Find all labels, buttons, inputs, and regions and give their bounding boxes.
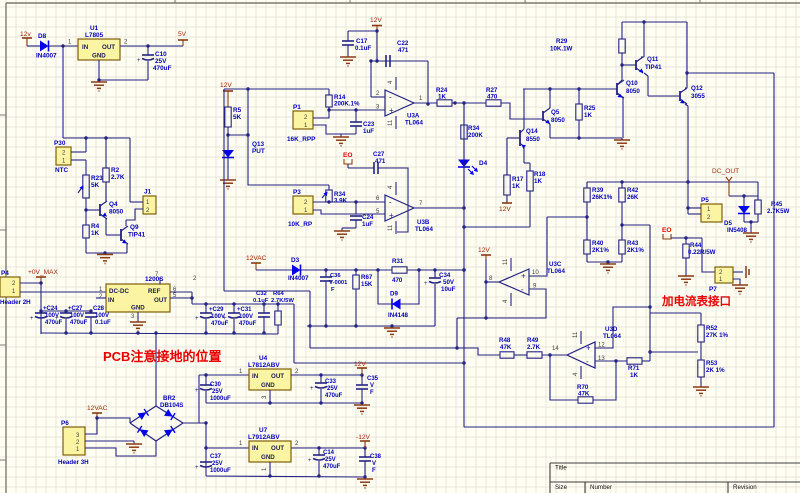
sheet border [6,2,800,4]
svg-text:+C31: +C31 [237,307,252,313]
svg-text:100V: 100V [239,314,253,320]
svg-text:C23: C23 [363,121,375,128]
resistor R27 470 [486,100,501,106]
wire R5 tap to divider [228,134,248,136]
svg-text:Revision: Revision [733,484,757,491]
svg-text:R52: R52 [706,325,718,332]
capacitor C17 0.1uF [347,31,349,41]
capacitor C23 1uF [355,110,357,122]
wire main output column [463,103,465,427]
svg-text:R23: R23 [91,175,103,182]
svg-text:P5: P5 [701,197,709,204]
wire vertical tap to RP row [248,89,329,185]
resistor R39 26K 1% [586,182,588,188]
capacitor C34 10uF [434,270,436,278]
resistor R45 2.7K 5W [757,196,759,200]
svg-text:R45: R45 [771,201,783,208]
svg-text:470uF: 470uF [323,464,341,470]
svg-text:L7805: L7805 [85,32,104,39]
svg-text:Header 3H: Header 3H [58,459,89,466]
ground reference rail [391,326,393,328]
svg-text:1uF: 1uF [363,128,374,135]
svg-text:470: 470 [392,277,403,284]
pin 7 stub [159,277,161,284]
svg-text:471: 471 [375,158,386,165]
svg-text:加电流表接口: 加电流表接口 [661,294,731,308]
svg-text:3055: 3055 [691,93,705,100]
svg-text:R17: R17 [512,176,524,183]
svg-text:+: + [195,316,199,322]
svg-text:C38: C38 [370,454,382,460]
wire P4 pin1 to DC-DC in [20,291,106,293]
wire R49 to U3D pin14 [542,354,567,356]
wire pin12 to sense [595,307,650,348]
svg-text:14: 14 [552,346,559,352]
svg-text:OUT: OUT [271,445,284,452]
svg-text:C32: C32 [256,291,268,297]
wire input cap rail [41,310,91,312]
svg-text:-: - [521,285,524,294]
chassis bracket [745,266,747,278]
wire 12v to D8 [27,45,40,47]
resistor R17 1K [506,138,508,175]
svg-text:R49: R49 [527,337,539,344]
svg-text:2K1%: 2K1% [592,247,609,254]
svg-text:D9: D9 [390,291,398,298]
wire C17 top [348,30,377,32]
svg-text:V-0001: V-0001 [329,280,348,286]
wire pin10 to divider tap [529,217,547,276]
wire U3B output [414,207,464,209]
wire Q11 emitter to Q12 base [648,95,680,97]
wire aux branch [293,304,295,363]
pin3 stub U4 [269,390,271,403]
svg-text:TL064: TL064 [405,120,423,127]
connector P1 [293,111,313,129]
svg-text:P30: P30 [54,140,66,147]
svg-text:Q9: Q9 [130,224,139,231]
svg-text:-: - [389,198,392,207]
svg-text:10K.1W: 10K.1W [550,46,573,53]
svg-text:12V: 12V [499,206,511,213]
svg-text:R43: R43 [627,240,639,247]
dc-dc converter 1200S [106,284,170,312]
wire P4 pin2 to port [20,282,41,284]
svg-text:+: + [195,465,199,471]
svg-text:47K: 47K [578,391,590,398]
svg-text:U3D: U3D [605,326,618,333]
svg-text:26K: 26K [627,194,639,201]
svg-text:DB104S: DB104S [160,402,183,409]
svg-text:Q14: Q14 [526,128,538,135]
svg-text:+: + [389,106,394,115]
svg-text:3.9K: 3.9K [334,198,348,205]
svg-text:R25: R25 [584,105,596,112]
wire pin2 up to feedback [370,61,372,97]
svg-text:10K_RP: 10K_RP [288,221,313,228]
svg-text:16K_RPP: 16K_RPP [287,136,316,143]
svg-text:C27: C27 [373,151,385,158]
svg-text:1000uF: 1000uF [210,396,231,402]
svg-text:5K: 5K [233,114,242,121]
svg-text:2.7K: 2.7K [111,174,125,181]
svg-text:OUT: OUT [271,373,284,380]
wire EO to R44 [671,237,702,239]
wire output rail [192,303,294,305]
svg-text:C17: C17 [356,38,368,45]
wire P7 pin2 bracket [733,271,743,273]
svg-text:470uF: 470uF [70,320,88,326]
svg-text:Number: Number [590,484,612,491]
wire R18 to output node [464,226,530,228]
svg-text:OUT: OUT [102,44,115,51]
wire top rail [622,21,687,23]
svg-text:GND: GND [92,53,106,60]
ground DC-DC [130,321,146,323]
svg-text:F: F [331,287,335,293]
svg-text:C10: C10 [155,51,167,58]
resistor R31 470 [392,267,407,273]
svg-text:12v: 12v [20,31,31,38]
wire collector to right loop [687,72,774,74]
svg-text:12V: 12V [354,361,366,368]
wire port column to cap rail [40,283,42,334]
wire rail to J1 pin1 [129,138,131,202]
capacitor C37 1000uF [200,461,212,463]
power port 12V under R17 [502,202,512,204]
svg-text:C14: C14 [323,450,335,456]
svg-text:470: 470 [487,94,498,101]
svg-text:IN: IN [252,445,259,452]
ground P1 [340,134,342,137]
wire P30 pin2 [71,151,86,153]
svg-text:P3: P3 [293,189,301,196]
svg-text:C34: C34 [439,272,451,279]
svg-text:D3: D3 [291,257,300,264]
svg-text:470uF: 470uF [45,320,63,326]
svg-text:-12V: -12V [356,434,371,441]
svg-text:Q11: Q11 [647,56,659,63]
svg-text:C35: C35 [367,376,379,382]
resistor R14 200K 1% [328,89,330,95]
svg-text:U7: U7 [259,427,268,434]
wire mid feedback vertical [294,362,464,364]
svg-text:+: + [521,272,526,281]
svg-text:R67: R67 [361,274,373,281]
wire J1 pin2 to Q9 collector [126,209,143,220]
transistor Q5 8050 [542,111,544,121]
transistor Q10 8050 [616,83,618,95]
connector P6 [63,427,85,455]
ground P6 [133,441,135,444]
diode D5 IN5408 [743,196,745,206]
wire bottom return [464,426,774,428]
svg-text:C30: C30 [210,382,222,388]
capacitor C10 [147,46,149,55]
svg-text:C22: C22 [397,40,409,47]
svg-text:D8: D8 [38,33,47,40]
resistor R48 47K [500,352,514,358]
ground divider [607,262,609,264]
resistor R52 27K 1% [700,313,702,325]
transistor Q4 8050 [99,204,101,216]
resistor R71 1K [627,358,642,364]
svg-text:J1: J1 [144,189,152,196]
svg-text:C37: C37 [210,454,222,460]
op-amp U3A TL064 [385,90,414,116]
ground driver [614,139,630,141]
wire bridge plus up [155,333,157,406]
svg-text:TL064: TL064 [547,268,565,275]
pin 3 stub gnd [137,312,139,322]
svg-text:100V: 100V [70,313,84,319]
title block [550,463,800,493]
potentiometer R34 3.9K [328,185,330,190]
svg-text:470uF: 470uF [153,65,172,72]
wire P3 pin1 to C24 row [313,210,385,214]
svg-text:R44: R44 [690,242,702,249]
PUT Q13 [222,150,234,158]
wire R27 to Q5 base [501,103,543,119]
svg-text:BR2: BR2 [163,395,176,402]
resistor R43 2K 1% [619,240,625,254]
resistor R40 2K 1% [584,240,590,254]
wire feedback C22 row [371,60,428,62]
wire P30 pin1 to R23 [71,159,86,161]
svg-text:8050: 8050 [626,88,640,95]
wire P6 pin2 to ground [85,440,134,442]
svg-text:C33: C33 [325,379,337,385]
svg-text:R42: R42 [627,187,639,194]
svg-text:1000uF: 1000uF [210,468,231,474]
svg-text:GND: GND [261,382,275,389]
svg-text:11: 11 [573,331,579,338]
svg-text:+: + [586,344,591,353]
svg-text:1K: 1K [584,112,592,119]
svg-text:F: F [370,390,374,396]
svg-text:+: + [137,58,141,64]
svg-text:R48: R48 [499,337,511,344]
svg-text:Q13: Q13 [252,141,265,148]
svg-text:R31: R31 [392,258,404,265]
svg-text:200K.1%: 200K.1% [334,101,360,108]
svg-text:2K 1%: 2K 1% [706,367,725,374]
capacitor C27 471 [373,162,375,174]
wire bridge output to C30 [183,375,199,423]
svg-text:+: + [308,458,312,464]
wire right return vertical [773,73,775,427]
svg-text:12V: 12V [220,82,232,89]
wire C27 loop [378,168,408,232]
svg-text:Q4: Q4 [109,201,118,208]
ground C17 [340,56,356,58]
resistor R70 47K [578,397,593,403]
capacitor C35 [361,375,363,385]
svg-text:TIP41: TIP41 [128,232,145,239]
svg-text:F: F [372,468,376,474]
svg-text:L7812ABV: L7812ABV [248,362,280,369]
svg-text:IN4007: IN4007 [288,275,309,282]
wire U7 input rail [205,423,207,476]
svg-text:IN: IN [108,297,115,304]
svg-text:+C24: +C24 [43,306,58,312]
wire output sense rail [587,181,758,183]
ground P7 [732,284,748,286]
svg-text:EO: EO [343,152,353,159]
svg-text:U3B: U3B [417,219,430,226]
wire R42 tap to lower stage [622,224,650,226]
wire P6 pin1 [85,441,156,456]
wire driver base rail [523,88,617,90]
svg-text:V: V [370,383,374,389]
capacitor C30 1000uF [205,375,207,385]
ground R53 [693,386,709,388]
ground D5 [750,222,752,233]
svg-text:1uF: 1uF [362,221,373,228]
svg-text:12VAC: 12VAC [87,405,108,412]
connector P30 [56,147,71,165]
svg-text:R2: R2 [111,167,120,174]
transistor Q9 TIP41 [120,229,122,241]
svg-text:25V: 25V [212,389,223,395]
wire P1 pin2 to R14 bottom [313,110,329,118]
resistor R29 10K 1W [621,22,623,39]
wire R52 top [650,312,701,314]
svg-text:R40: R40 [592,240,604,247]
capacitor C27 input [65,311,67,313]
wire feedback R70 loop [550,355,578,400]
wire output to summing line [456,318,458,348]
svg-text:REF: REF [148,288,161,295]
svg-text:U3A: U3A [407,113,420,120]
svg-text:PCB注意接地的位置: PCB注意接地的位置 [103,349,221,364]
svg-text:1K: 1K [438,94,446,101]
wire U4 out rail [291,374,362,376]
svg-text:200K: 200K [468,132,483,139]
svg-text:R53: R53 [706,360,718,367]
svg-text:+: + [195,388,199,394]
wire D8 to U1 [49,45,79,47]
capacitor C38 [364,448,366,457]
svg-text:Q10: Q10 [626,80,638,87]
svg-text:R39: R39 [592,187,604,194]
ground U1 [91,81,107,83]
svg-text:DC_OUT: DC_OUT [712,168,739,175]
svg-text:P4: P4 [1,270,9,277]
wire vertical to DC-DC node [223,89,225,291]
wire R23 to R4 with tap [85,198,87,225]
svg-text:R64: R64 [273,291,285,297]
wire U7 out rail [291,447,365,449]
svg-text:25V: 25V [325,457,336,463]
ground U7 row [357,478,373,480]
svg-text:47K: 47K [500,344,512,351]
svg-text:470uF: 470uF [325,393,343,399]
pin1 stub U7 [269,462,271,476]
resistor R5 1K [225,107,231,127]
svg-text:D4: D4 [479,160,488,167]
svg-text:D5: D5 [724,220,732,227]
capacitor C33 470uF [320,375,322,383]
svg-text:IN: IN [252,373,259,380]
svg-text:C24: C24 [362,214,374,221]
potentiometer R23 5K [83,175,89,198]
svg-text:471: 471 [398,47,409,54]
capacitor C24 1uF [355,202,357,214]
wire P6 pin3 [85,418,97,434]
wire P3 pin2 / pin6 row [313,201,385,203]
ground P3 [334,230,350,232]
wire P7 pin1 to ground [733,279,740,285]
svg-text:R5: R5 [233,107,242,114]
svg-text:TL064: TL064 [603,333,621,340]
transistor Q12 3055 [679,91,681,101]
diode D9 IN4148 [378,270,392,304]
svg-text:R71: R71 [628,365,640,372]
svg-text:11: 11 [388,224,394,231]
svg-text:11: 11 [503,258,509,265]
svg-text:TIP41: TIP41 [645,64,662,71]
svg-text:P7: P7 [709,286,717,293]
svg-text:11: 11 [388,119,394,126]
wire reference rail [301,269,393,271]
svg-text:GND: GND [261,454,275,461]
resistor R18 1K [527,171,533,191]
ground U4 row [354,404,370,406]
wire feedback down to output [427,61,429,104]
wire U3C output [486,281,499,283]
svg-text:TL064: TL064 [415,226,433,233]
svg-text:12V: 12V [370,17,382,24]
resistor R53 2K 1% [700,352,702,360]
svg-text:+: + [310,386,314,392]
LED D4 [458,160,470,168]
wire long vertical to R52 node [649,225,651,361]
svg-text:25V: 25V [155,58,167,65]
wire P1 pin1 to ground [313,125,356,134]
capacitor C29 [205,304,207,313]
svg-text:R34: R34 [468,125,480,132]
svg-text:10: 10 [532,270,539,276]
wire divider ground rail [587,261,622,263]
wire U1 out to 5V port [120,45,183,47]
wire D8 node down to bias rail [62,46,64,138]
svg-text:0.1uF: 0.1uF [355,45,371,52]
wire sense rail top [224,88,329,90]
ground PUT [220,179,236,181]
capacitor C36 [325,270,327,277]
svg-text:+: + [389,211,394,220]
svg-text:2.7K: 2.7K [527,344,541,351]
svg-text:25V: 25V [327,386,338,392]
transistor Q14 8550 [519,130,521,146]
connector P4 [0,277,20,297]
wire driver emitter rail [550,137,622,139]
svg-text:Title: Title [555,465,567,472]
transistor Q11 TIP41 [635,60,637,70]
svg-text:L7912ABV: L7912ABV [248,434,280,441]
wire R29 node to Q11 base [622,64,636,66]
capacitor C22 471 [385,55,387,67]
wire R71 to node [642,360,650,362]
wire C24 to ground [342,227,356,229]
svg-text:U4: U4 [259,355,268,362]
capacitor C24 input [40,311,42,313]
svg-text:8050: 8050 [551,117,565,124]
svg-text:0.1uF: 0.1uF [95,320,111,326]
connector P7 [715,267,733,283]
svg-text:1K: 1K [534,178,542,185]
